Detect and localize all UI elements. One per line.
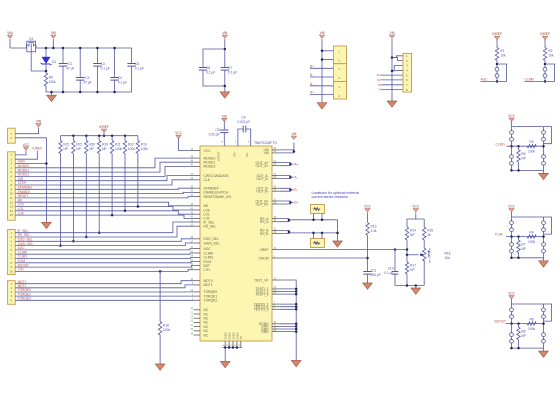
- wire Q1 gate down: [31, 52, 46, 71]
- wire R14 top: [406, 219, 408, 227]
- wire bottom gnd bus: [223, 347, 243, 349]
- svg-text:GND2: GND2: [231, 332, 235, 340]
- wire CLIM0 to IC: [15, 253, 193, 254]
- wire R21 to net: [60, 154, 62, 246]
- resistor R2 10k: [543, 48, 546, 61]
- potentiometer R16 10k: [423, 240, 425, 248]
- svg-text:VREF: VREF: [260, 248, 269, 252]
- pad upper-left 1 CLIM1: [510, 131, 514, 135]
- junction RS_B/gnd column: [336, 232, 339, 235]
- wire pin1: [392, 56, 403, 58]
- junction rail/D1: [45, 47, 48, 50]
- svg-text:Q1: Q1: [29, 37, 34, 41]
- wire test/gnd pin: [280, 325, 296, 327]
- resistor R8 NP: [517, 327, 520, 340]
- wire VM/GND trunk: [391, 39, 393, 99]
- svg-text:OUT_B+: OUT_B+: [256, 202, 269, 206]
- pad lower-right 2 BOOST: [542, 339, 546, 343]
- svg-text:MODE2: MODE2: [204, 165, 216, 169]
- svg-text:100k: 100k: [141, 147, 148, 151]
- pad 1 of AGC jumper: [495, 67, 499, 71]
- wire node row: [506, 323, 544, 325]
- IC right pin stubs and names: [272, 149, 280, 151]
- svg-text:0.22 µF: 0.22 µF: [209, 132, 220, 136]
- wire R15 top: [423, 219, 425, 227]
- svg-text:R11: R11: [115, 143, 121, 147]
- wire to label AGC: [481, 80, 498, 82]
- connector J2 logic 15-pin: [8, 152, 16, 220]
- svg-text:4.3k: 4.3k: [371, 229, 377, 233]
- wire IOREF stub: [103, 132, 105, 135]
- svg-text:IOREF: IOREF: [492, 32, 502, 36]
- wire J1 pin1 to VIN: [15, 128, 38, 134]
- ground at motor connector: [317, 103, 327, 109]
- IC U1 TB67S128FTG body: [200, 146, 272, 341]
- svg-text:NC: NC: [204, 333, 209, 337]
- svg-text:OUT_A+: OUT_A+: [256, 164, 269, 168]
- junction gate/D1/R9: [45, 70, 48, 73]
- wire VM trunk: [321, 39, 323, 100]
- resistor R4 100k: [527, 235, 536, 238]
- svg-text:0.1 µF: 0.1 µF: [384, 271, 393, 275]
- wire OUT pair B+: [280, 201, 291, 204]
- wire C6 bottom: [203, 70, 225, 86]
- ground at VREF divider: [411, 288, 421, 294]
- svg-text:VCC: VCC: [508, 292, 515, 296]
- wire R10 to net: [137, 154, 139, 207]
- svg-text:R14: R14: [410, 229, 416, 233]
- svg-text:C3: C3: [101, 62, 105, 66]
- svg-text:NP: NP: [63, 147, 68, 151]
- ground at aux connector: [387, 101, 397, 107]
- wire C10 bottom: [394, 274, 396, 285]
- pad upper-right 1 FLIM: [542, 221, 546, 225]
- wire left upper column: [511, 304, 513, 324]
- wire gnd stub: [543, 258, 545, 261]
- svg-text:GND2: GND2: [228, 332, 232, 340]
- wire test/gnd pin: [280, 308, 296, 310]
- wire rnp top: [518, 146, 520, 150]
- svg-text:NP: NP: [102, 147, 107, 151]
- svg-text:NP: NP: [410, 268, 415, 272]
- svg-text:VIN: VIN: [7, 31, 13, 35]
- svg-text:100k: 100k: [528, 240, 535, 244]
- connector motor outputs 3x2-pin: [334, 46, 347, 64]
- svg-text:VCC: VCC: [204, 149, 212, 153]
- svg-text:TEST_VF: TEST_VF: [254, 278, 269, 282]
- wire left lower column: [511, 146, 513, 170]
- wire B-: [310, 76, 334, 78]
- pad lower-right 2 CLIM1: [542, 161, 546, 165]
- wire test/gnd pin: [280, 323, 296, 325]
- ground at C11: [363, 283, 373, 289]
- wire gnd stub: [415, 286, 417, 289]
- resistor R21 NP: [59, 141, 62, 154]
- wire bottom rail: [512, 347, 544, 349]
- svg-text:LTH: LTH: [204, 268, 211, 272]
- ground at TEST/GND trunk: [291, 361, 301, 367]
- svg-text:R8: R8: [521, 330, 525, 334]
- wire test/gnd pin: [280, 291, 296, 293]
- wire pin4: [392, 69, 403, 72]
- svg-text:RX: RX: [378, 83, 382, 87]
- resistor R19 NP: [98, 141, 101, 154]
- svg-text:25: 25: [190, 328, 193, 331]
- wire TORQE2 to IC: [15, 299, 193, 301]
- wire top rail: [512, 303, 544, 305]
- pad lower-left 2 BOOST: [510, 339, 514, 343]
- wire rnp bottom: [518, 340, 520, 349]
- wire ENABLE to IC: [15, 192, 193, 193]
- wire to C4: [114, 48, 116, 78]
- svg-text:VM: VM: [320, 31, 325, 35]
- wire to label B-: [290, 189, 293, 191]
- svg-text:VCC: VCC: [175, 131, 182, 135]
- wire MDT0 to IC: [15, 281, 193, 284]
- resistor R5 100k: [527, 322, 536, 325]
- svg-text:NC: NC: [239, 336, 243, 340]
- capacitor C4 0.1 µF: [110, 77, 118, 79]
- svg-text:100k: 100k: [128, 147, 135, 151]
- wire test/gnd pin: [280, 288, 296, 290]
- svg-text:24: 24: [190, 324, 193, 327]
- wire C8 to CPOUT pin: [223, 133, 225, 146]
- wire C9 to CP+ pin: [238, 129, 243, 146]
- wire to label CLIM0: [525, 80, 546, 82]
- svg-text:B+: B+: [310, 64, 314, 68]
- svg-text:VM: VM: [222, 114, 227, 118]
- wire top rail: [36, 47, 132, 49]
- svg-text:BOOST: BOOST: [495, 320, 506, 324]
- junction node right CLIM1: [542, 145, 545, 148]
- svg-text:OUT_B-: OUT_B-: [256, 190, 268, 194]
- svg-text:OUT_A-: OUT_A-: [256, 177, 268, 181]
- wire VCC stub: [511, 212, 513, 217]
- svg-text:6: 6: [248, 140, 250, 143]
- pad upper-right 2 CLIM1: [542, 137, 546, 141]
- junction R11: [111, 214, 114, 217]
- svg-text:VCC: VCC: [508, 114, 515, 118]
- resistor R17 NP: [405, 262, 408, 274]
- wire to pin2: [322, 59, 334, 61]
- wire C9 to CP- pin: [246, 129, 251, 146]
- wire gnd stub: [543, 170, 545, 173]
- svg-text:RESET/BANK_EN: RESET/BANK_EN: [204, 195, 232, 199]
- svg-text:R6: R6: [521, 152, 525, 156]
- wire gnd stub: [543, 348, 545, 351]
- wire A+: [310, 94, 334, 96]
- svg-text:R3: R3: [529, 140, 533, 144]
- pad lower-right 1 CLIM1: [542, 155, 546, 159]
- IC NC pins lower left: [194, 309, 201, 311]
- resistor R15 3k: [423, 227, 426, 240]
- resistor R12 100k: [123, 141, 126, 154]
- junction OSCM: [366, 257, 369, 260]
- svg-text:TB67S128FTG: TB67S128FTG: [254, 141, 277, 145]
- junction trunk pins3-4: [391, 70, 394, 73]
- junction pin2: [321, 58, 324, 61]
- svg-text:8: 8: [221, 140, 223, 143]
- svg-text:GAIN_SEL: GAIN_SEL: [204, 241, 220, 245]
- junction LTH / R18: [159, 270, 162, 273]
- junction R22: [72, 240, 75, 243]
- junction gnd drop: [45, 162, 48, 165]
- svg-text:VCC: VCC: [508, 205, 515, 209]
- wire MDT1 to IC: [15, 285, 193, 288]
- pad upper-right 2 BOOST: [542, 315, 546, 319]
- wire OUT pair A+: [280, 163, 291, 166]
- svg-text:22: 22: [190, 316, 193, 319]
- wire J2 pin3 GND: [15, 163, 46, 165]
- wire rail to R11: [111, 136, 113, 141]
- svg-text:100k: 100k: [528, 327, 535, 331]
- wire J1 pin2 gnd drop: [15, 138, 46, 223]
- wire to C2: [79, 48, 81, 78]
- pad upper-right 1 CLIM1: [542, 131, 546, 135]
- svg-text:SLP: SLP: [377, 73, 382, 77]
- svg-text:21: 21: [190, 311, 193, 314]
- wire rail to R19: [98, 136, 100, 141]
- wire R22 to net: [72, 154, 74, 242]
- svg-text:R5: R5: [529, 317, 533, 321]
- wire test/gnd pin: [280, 331, 296, 333]
- wire EDG_SEL to IC: [15, 239, 193, 242]
- resistor R6 NP: [517, 150, 520, 163]
- svg-text:VCC: VCC: [23, 143, 30, 147]
- pad lower-left 2 FLIM: [510, 249, 514, 253]
- wire IOREF to R1: [496, 40, 498, 48]
- svg-text:47 µF: 47 µF: [83, 80, 91, 84]
- wire VCC to R13: [367, 213, 369, 223]
- wire pin6: [382, 79, 404, 81]
- wire R17 bottom: [406, 274, 408, 286]
- wire bypass loop: [544, 127, 552, 144]
- svg-text:TESTI_3: TESTI_3: [255, 292, 268, 296]
- pad upper-right 2 FLIM: [542, 228, 546, 232]
- wire bypass loop: [544, 217, 552, 234]
- svg-text:100k: 100k: [528, 150, 535, 154]
- capacitor C1 47 µF: [59, 63, 67, 65]
- connector J3 select 10-pin: [8, 230, 16, 275]
- junction R20: [85, 236, 88, 239]
- wire OSCM net: [280, 257, 368, 259]
- wire LO1 to IC: [15, 211, 193, 214]
- wire bottom rail: [512, 257, 544, 259]
- wire C11 to gnd: [367, 274, 369, 283]
- pad lower-left 1 CLIM1: [510, 155, 514, 159]
- pad 2 of AGC jumper: [495, 74, 499, 78]
- resistor R13 4.3k: [366, 223, 369, 236]
- svg-text:LO2: LO2: [18, 211, 24, 215]
- pad lower-right 1 BOOST: [542, 333, 546, 337]
- capacitor C7 0.1 uF: [221, 67, 229, 69]
- wire STANDBY to IC: [15, 188, 193, 189]
- junction trunk pins1-2: [391, 56, 394, 59]
- svg-text:0.1 µF: 0.1 µF: [135, 66, 144, 70]
- wire right column: [543, 217, 545, 258]
- ground at BOOST block: [539, 351, 549, 357]
- wire pin8: [382, 89, 404, 91]
- capacitor C3 0.1 µF: [93, 63, 101, 65]
- wire right column: [543, 304, 545, 348]
- wire AGC to IC: [15, 249, 193, 250]
- junction node right BOOST: [542, 322, 545, 325]
- wire rail to R21: [60, 136, 62, 141]
- svg-text:C11: C11: [371, 268, 377, 272]
- junction R12: [124, 210, 127, 213]
- svg-text:23: 23: [190, 320, 193, 323]
- wire rnp top: [518, 324, 520, 328]
- svg-text:RS_SEL: RS_SEL: [204, 225, 217, 229]
- svg-text:NP: NP: [521, 157, 526, 161]
- wire test/gnd pin: [280, 303, 296, 305]
- wire LTH to IC: [15, 270, 193, 272]
- svg-text:100k: 100k: [49, 80, 56, 84]
- wire VCC stub: [511, 122, 513, 127]
- svg-text:0.022 µF: 0.022 µF: [238, 120, 251, 124]
- svg-text:FLT: FLT: [377, 78, 382, 82]
- junction C6/C7 gnd: [224, 85, 227, 88]
- svg-text:10k: 10k: [500, 54, 506, 58]
- wire bypass loop: [544, 304, 552, 321]
- wire rail to Q1: [10, 47, 27, 49]
- wire RS_B pair: [280, 230, 289, 233]
- svg-text:10k: 10k: [445, 256, 451, 260]
- svg-text:20: 20: [190, 307, 193, 310]
- wire pin3: [394, 66, 403, 71]
- svg-text:CLIM0: CLIM0: [204, 251, 214, 255]
- pad 1 of CLIM0 jumper: [543, 67, 547, 71]
- resistor R3 100k: [527, 145, 536, 148]
- wire RS to gnd: [337, 220, 339, 241]
- wire LO2 to IC: [15, 215, 193, 218]
- wire MODE2 to IC: [15, 166, 193, 176]
- wire R19 to net: [98, 154, 100, 233]
- svg-text:CLK: CLK: [204, 178, 211, 182]
- pad lower-left 1 BOOST: [510, 333, 514, 337]
- resistor R10 100k: [136, 141, 139, 154]
- wire through pads: [544, 61, 546, 84]
- junction pad top: [544, 63, 547, 66]
- capacitor C5 0.1 µF: [127, 63, 135, 65]
- junction pad bottom: [544, 80, 547, 83]
- svg-text:A-: A-: [294, 175, 297, 179]
- svg-text:VM: VM: [264, 151, 269, 155]
- wire rail to R12: [124, 136, 126, 141]
- ground at input caps: [47, 95, 57, 101]
- wire VCC to IC VCC pin: [179, 139, 194, 151]
- wire pot bottom: [423, 260, 425, 286]
- resistor R18 100k: [158, 322, 161, 336]
- wire VIN to rail: [9, 39, 11, 48]
- resistor R1 10k: [495, 48, 498, 61]
- wire pullup top rail: [61, 135, 138, 137]
- sense resistor location RS_A: [311, 205, 325, 214]
- wire right column: [543, 127, 545, 171]
- svg-text:CPOUT: CPOUT: [217, 151, 221, 161]
- pad lower-right 2 FLIM: [542, 249, 546, 253]
- svg-text:R21: R21: [63, 143, 69, 147]
- wire rnp bottom: [518, 253, 520, 258]
- svg-text:R15: R15: [427, 229, 433, 233]
- wire FLIM to IC: [15, 262, 193, 263]
- junction R10: [137, 205, 140, 208]
- wire DIR to IC: [15, 176, 193, 181]
- capacitor C8 0.22 uF: [220, 129, 228, 131]
- wire OUT pair A-: [280, 176, 291, 179]
- capacitor C10 0.1 uF: [394, 250, 396, 272]
- junction wiper: [406, 254, 409, 256]
- svg-text:GND2: GND2: [235, 332, 239, 340]
- svg-text:0.1 µF: 0.1 µF: [228, 70, 237, 74]
- svg-text:C4: C4: [118, 76, 122, 80]
- wire to C5: [131, 48, 133, 64]
- wire R14 bottom to R17: [406, 240, 408, 262]
- svg-text:R1: R1: [500, 49, 504, 53]
- wire VM to C8: [223, 122, 225, 130]
- wire node row: [506, 236, 544, 238]
- ground at sense resistors: [333, 241, 343, 247]
- wire C7 bottom to gnd: [224, 70, 226, 92]
- wire test/gnd pin: [280, 328, 296, 330]
- svg-text:FLIM: FLIM: [495, 233, 503, 237]
- wire TORQE1 to IC: [15, 295, 193, 297]
- pad upper-right 1 BOOST: [542, 308, 546, 312]
- IC bottom pins GND pad: [224, 341, 226, 348]
- svg-text:TX: TX: [378, 88, 382, 92]
- wire pin5: [382, 74, 404, 76]
- svg-text:C6: C6: [206, 66, 210, 70]
- wire RESET to IC: [15, 197, 193, 198]
- wire trunk to gnd: [321, 100, 323, 103]
- svg-text:NP: NP: [76, 147, 81, 151]
- wire test/gnd pin: [280, 293, 296, 295]
- resistor R22 NP: [72, 141, 75, 154]
- wire LO0 to IC: [15, 207, 193, 211]
- svg-text:0.1 µF: 0.1 µF: [101, 66, 110, 70]
- wire wiper: [407, 254, 419, 256]
- wire left lower column: [511, 237, 513, 258]
- wire OUT pair B-: [280, 188, 291, 191]
- wire to C1: [62, 48, 64, 64]
- wire to label A+: [290, 163, 293, 165]
- svg-text:VM: VM: [390, 31, 395, 35]
- svg-text:MDT1: MDT1: [204, 283, 213, 287]
- wire rail to R22: [72, 136, 74, 141]
- resistor R20 NP: [85, 141, 88, 154]
- zener diode D1: [42, 57, 50, 64]
- wire shorting loop: [497, 64, 507, 81]
- ground at R18: [155, 364, 165, 370]
- junction OUT A-: [289, 176, 292, 179]
- ground at FLIM block: [539, 261, 549, 267]
- junction R21: [59, 244, 62, 247]
- svg-text:NP: NP: [89, 147, 94, 151]
- svg-text:C10: C10: [388, 266, 394, 270]
- svg-text:220 pF: 220 pF: [371, 273, 381, 277]
- svg-text:R4: R4: [529, 230, 533, 234]
- wire rnp top: [518, 237, 520, 241]
- wire pin7: [382, 84, 404, 86]
- wire IOREF to R2: [544, 40, 546, 48]
- wire R12 to net: [124, 154, 126, 211]
- capacitor C11 220 pF: [363, 271, 371, 273]
- svg-text:B-: B-: [294, 188, 297, 192]
- wire RS_A pad pin1: [313, 214, 315, 220]
- ground at C6/C7: [220, 92, 230, 98]
- wire R18 to gnd: [159, 335, 161, 364]
- junction node right FLIM: [542, 235, 545, 238]
